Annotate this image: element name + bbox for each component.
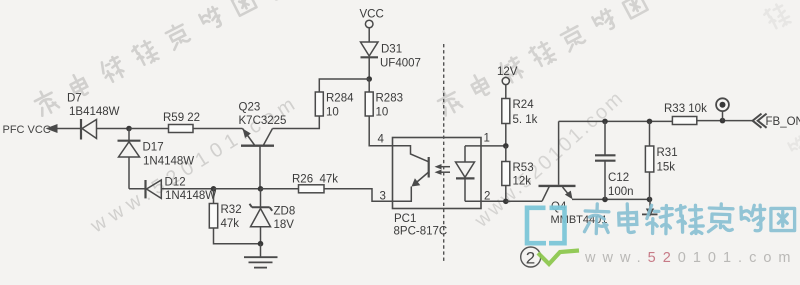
svg-text:10: 10 xyxy=(376,107,389,119)
wire node to R53 xyxy=(505,146,507,162)
wire D12 to R32 node xyxy=(161,188,213,190)
svg-text:8PC-817C: 8PC-817C xyxy=(394,226,448,238)
wire node to R284 top xyxy=(319,79,369,92)
svg-text:PC1: PC1 xyxy=(394,213,416,225)
svg-text:R283: R283 xyxy=(376,93,404,105)
watermark gray CJK diagonal top-left xyxy=(32,0,282,117)
resistor R31 xyxy=(645,121,653,199)
wire corner to D12 xyxy=(129,188,146,190)
resistor R59 xyxy=(169,125,194,133)
wire Q4 collector top bus xyxy=(559,120,673,122)
wire R53 to pin2 node xyxy=(505,186,507,202)
resistor R26 xyxy=(299,185,325,193)
PC1 phototransistor xyxy=(393,146,429,202)
svg-text:D12: D12 xyxy=(165,177,186,189)
wire R26 to PC1 pin3 xyxy=(324,189,393,202)
svg-text:PFC VCC: PFC VCC xyxy=(3,124,51,136)
wire node to R283 top xyxy=(368,79,370,92)
green check mark xyxy=(538,251,579,265)
svg-text:R59 22: R59 22 xyxy=(163,112,200,124)
svg-text:3: 3 xyxy=(380,191,386,203)
resistor R283 xyxy=(365,92,373,116)
wire node to R59 xyxy=(129,128,169,130)
wire pin1 xyxy=(465,145,506,147)
svg-text:K7C3225: K7C3225 xyxy=(239,115,287,127)
svg-text:1: 1 xyxy=(484,133,490,145)
svg-text:FB_ON: FB_ON xyxy=(766,116,800,128)
svg-text:1N4148W: 1N4148W xyxy=(143,156,194,168)
svg-text:ZD8: ZD8 xyxy=(274,206,296,218)
wire R24 to pin1 node xyxy=(505,124,507,146)
zener ZD8 xyxy=(250,189,273,244)
wire R33 to FB_ON xyxy=(697,120,753,122)
svg-text:12V: 12V xyxy=(497,66,518,78)
svg-text:R284: R284 xyxy=(326,93,354,105)
teal watermark logo brackets xyxy=(527,208,565,243)
wire Q23 collector to R284 xyxy=(273,116,320,129)
svg-text:C12: C12 xyxy=(608,172,629,184)
wire Q4 emitter to bottom bus xyxy=(572,198,650,200)
capacitor C12 xyxy=(595,121,616,199)
PC1 light arrows xyxy=(435,164,451,175)
test point terminal xyxy=(716,98,729,120)
svg-text:47k: 47k xyxy=(221,218,240,230)
wire 12V to R24 xyxy=(505,85,507,99)
wire pin2 xyxy=(465,200,506,202)
ground xyxy=(244,244,278,268)
diode D12 xyxy=(146,180,162,198)
circled 2 sheet marker xyxy=(521,247,541,268)
resistor R53 xyxy=(502,162,510,186)
wire node to ZD8 node xyxy=(214,188,261,190)
svg-text:100n: 100n xyxy=(608,186,634,198)
resistor R33 xyxy=(672,117,696,125)
diode D7 xyxy=(81,119,97,140)
resistor R284 xyxy=(315,92,323,116)
wire R59 to Q23 emitter xyxy=(193,128,243,130)
node junction C12 top xyxy=(602,119,608,125)
svg-text:R31: R31 xyxy=(657,147,678,159)
node junction R31 top xyxy=(647,119,653,125)
arrow PFC VCC xyxy=(46,124,58,133)
svg-text:D31: D31 xyxy=(381,44,402,56)
node junction R32 top xyxy=(211,186,217,192)
svg-text:4: 4 xyxy=(378,134,385,146)
node junction test point xyxy=(720,118,726,124)
svg-text:R26 47k: R26 47k xyxy=(292,174,338,186)
wire D31 to node xyxy=(368,57,370,79)
svg-text:15k: 15k xyxy=(657,162,676,174)
resistor R24 xyxy=(502,99,510,124)
svg-text:www.520101.com: www.520101.com xyxy=(584,250,797,266)
dashed isolation line xyxy=(443,44,445,261)
node junction at D17 top xyxy=(126,126,132,132)
svg-text:R32: R32 xyxy=(221,204,242,216)
svg-text:UF4007: UF4007 xyxy=(380,58,421,70)
node junction ZD8 top xyxy=(258,186,264,192)
watermark gray CJK diagonal middle xyxy=(435,0,647,117)
arrow to ground below R31 xyxy=(642,199,658,216)
wire ZD8 node to R26 xyxy=(261,188,299,190)
transistor Q4 xyxy=(539,121,576,201)
svg-text:R24: R24 xyxy=(513,99,535,111)
svg-text:R33 10k: R33 10k xyxy=(664,103,707,115)
node junction pin1 xyxy=(503,143,509,149)
svg-text:2: 2 xyxy=(484,191,490,203)
svg-text:18V: 18V xyxy=(274,219,295,231)
wire node to Q4 base xyxy=(506,200,542,202)
node junction pin2 xyxy=(503,199,509,205)
optocoupler U PC1 box xyxy=(393,138,482,209)
node junction C12 bottom xyxy=(602,197,608,203)
node junction above ground xyxy=(258,241,264,247)
svg-text:1N4148W: 1N4148W xyxy=(165,190,216,202)
svg-text:Q23: Q23 xyxy=(239,102,261,114)
watermark gray CJK fragment top-right xyxy=(763,2,800,158)
wire arrow to D7 xyxy=(57,128,81,130)
transistor Q23 xyxy=(241,129,274,190)
PC1 LED xyxy=(456,146,475,201)
svg-text:VCC: VCC xyxy=(360,9,384,21)
svg-text:D7: D7 xyxy=(67,93,82,105)
wire R283 to PC1 pin4 xyxy=(369,116,392,146)
svg-text:5. 1k: 5. 1k xyxy=(513,114,538,126)
svg-text:D17: D17 xyxy=(143,142,164,154)
wire D7 to node xyxy=(97,128,130,130)
diode D17 xyxy=(118,129,141,189)
resistor R32 xyxy=(209,189,260,244)
svg-text:1B4148W: 1B4148W xyxy=(69,106,120,118)
svg-text:12k: 12k xyxy=(513,176,532,188)
node junction below D31 xyxy=(366,76,372,82)
svg-text:2: 2 xyxy=(526,249,535,268)
chevrons FB_ON xyxy=(753,114,767,128)
diode D31 xyxy=(361,42,379,57)
node junction R31 bottom xyxy=(647,197,653,203)
svg-text:R53: R53 xyxy=(513,162,534,174)
svg-text:10: 10 xyxy=(326,107,339,119)
teal watermark CJK text xyxy=(584,204,794,234)
wire VCC to D31 xyxy=(368,28,370,42)
